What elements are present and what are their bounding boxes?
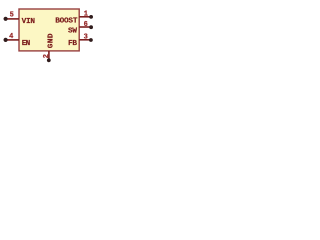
- svg-text:1: 1: [84, 10, 88, 18]
- svg-text:6: 6: [84, 21, 88, 29]
- svg-text:GND: GND: [48, 33, 56, 48]
- svg-text:2: 2: [43, 54, 51, 58]
- svg-text:SW: SW: [68, 27, 77, 35]
- svg-text:4: 4: [9, 33, 13, 41]
- svg-text:EN: EN: [22, 40, 31, 48]
- svg-text:5: 5: [10, 12, 14, 20]
- svg-text:3: 3: [84, 34, 88, 42]
- svg-text:FB: FB: [68, 40, 77, 48]
- svg-text:VIN: VIN: [22, 18, 36, 26]
- svg-text:BOOST: BOOST: [55, 17, 78, 25]
